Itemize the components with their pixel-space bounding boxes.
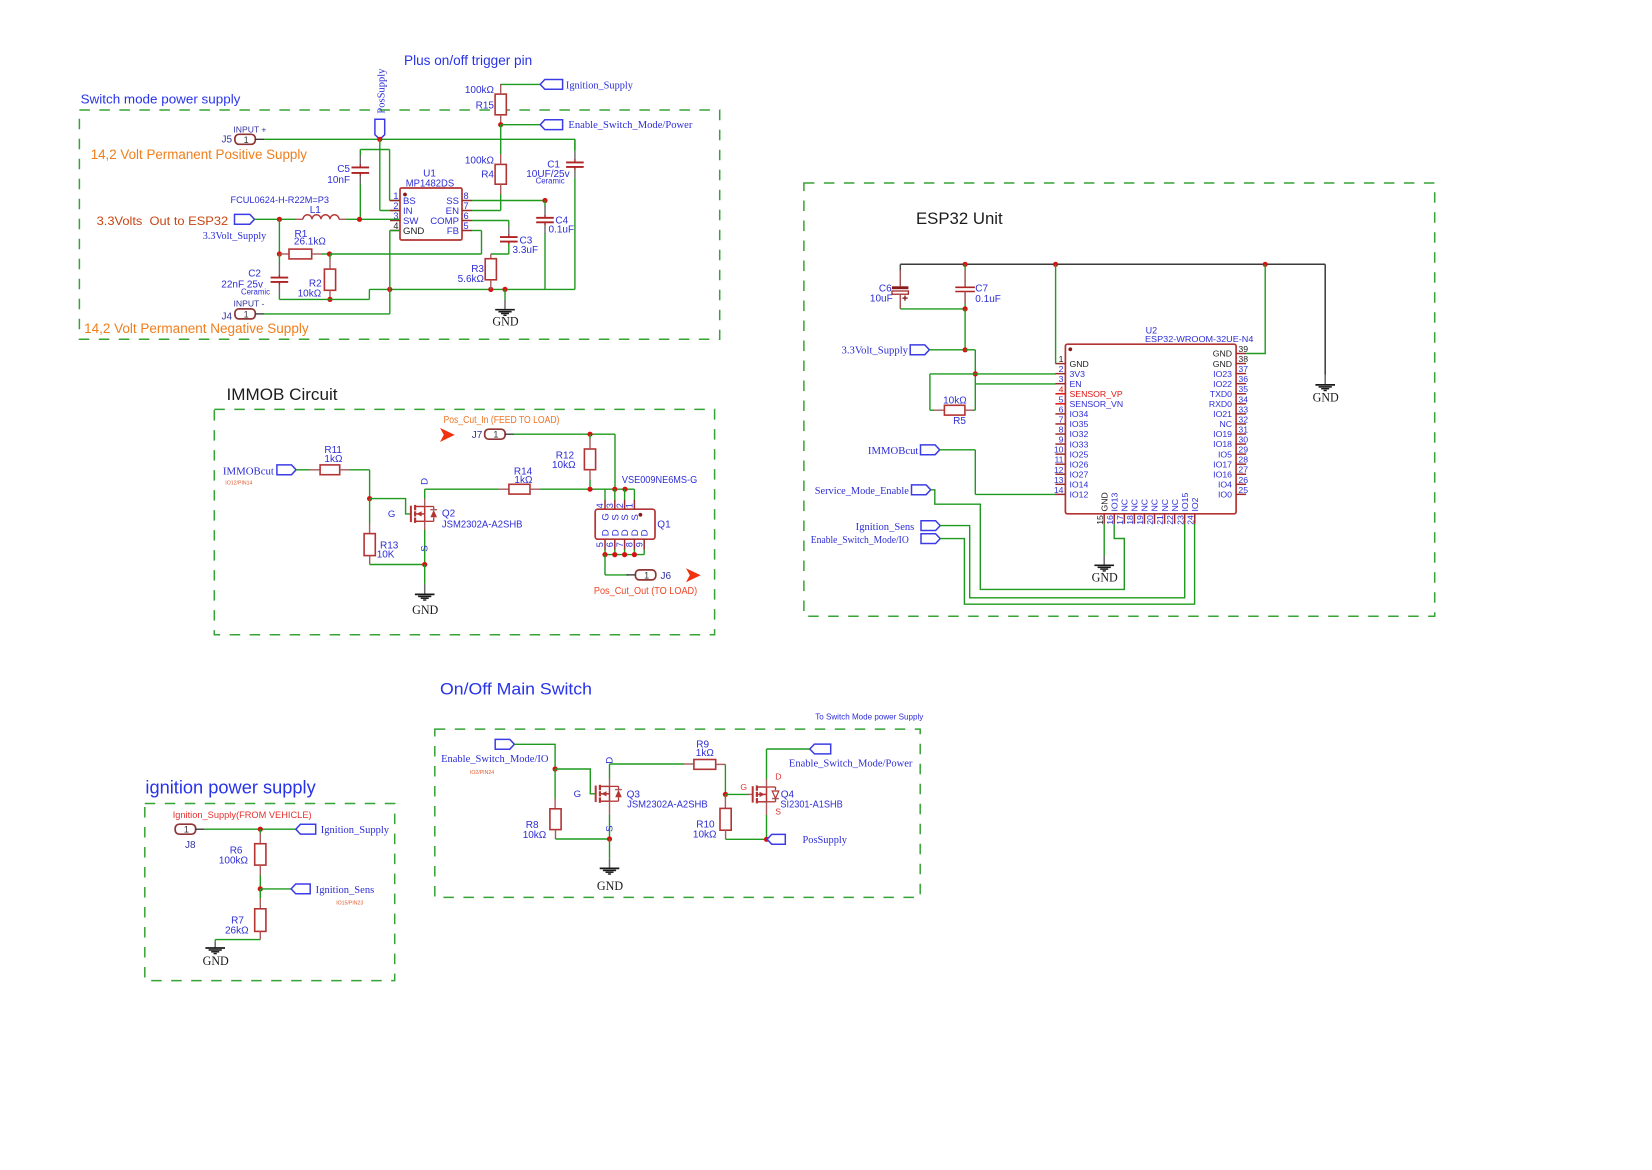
svg-text:35: 35 <box>1238 384 1248 394</box>
svg-text:3: 3 <box>1059 374 1064 384</box>
svg-text:NC: NC <box>1120 499 1130 512</box>
svg-text:IO12/PIN14: IO12/PIN14 <box>225 481 252 487</box>
svg-text:12: 12 <box>1054 465 1064 475</box>
svg-text:37: 37 <box>1238 364 1248 374</box>
svg-text:GND: GND <box>1070 359 1089 369</box>
svg-text:Enable_Switch_Mode/Power: Enable_Switch_Mode/Power <box>789 759 913 770</box>
svg-text:100kΩ: 100kΩ <box>219 855 249 866</box>
svg-text:22: 22 <box>1165 515 1175 525</box>
svg-text:R4: R4 <box>481 170 494 181</box>
svg-text:INPUT +: INPUT + <box>233 125 266 135</box>
svg-text:20: 20 <box>1145 515 1155 525</box>
svg-text:7: 7 <box>1059 414 1064 424</box>
svg-text:PosSupply: PosSupply <box>376 68 387 114</box>
svg-text:4: 4 <box>595 503 605 508</box>
svg-text:17: 17 <box>1115 515 1125 525</box>
svg-text:18: 18 <box>1125 515 1135 525</box>
svg-text:5.6kΩ: 5.6kΩ <box>458 274 485 285</box>
svg-text:9: 9 <box>634 542 644 547</box>
svg-text:GND: GND <box>1213 359 1232 369</box>
svg-text:GND: GND <box>597 879 623 893</box>
svg-text:IMMOBcut: IMMOBcut <box>223 467 274 478</box>
svg-text:GND: GND <box>1213 349 1232 359</box>
svg-text:IO0: IO0 <box>1218 490 1232 500</box>
svg-text:1: 1 <box>393 191 398 201</box>
svg-text:JSM2302A-A2SHB: JSM2302A-A2SHB <box>442 519 523 530</box>
svg-text:IO25: IO25 <box>1070 449 1089 459</box>
svg-text:IO23: IO23 <box>1213 369 1232 379</box>
svg-text:IO16: IO16 <box>1213 469 1232 479</box>
svg-text:34: 34 <box>1238 394 1248 404</box>
svg-text:26: 26 <box>1238 475 1248 485</box>
svg-text:33: 33 <box>1238 404 1248 414</box>
svg-text:13: 13 <box>1054 475 1064 485</box>
svg-text:GND: GND <box>492 314 518 328</box>
svg-text:NC: NC <box>1219 419 1232 429</box>
svg-text:21: 21 <box>1155 515 1165 525</box>
svg-text:IO17: IO17 <box>1213 459 1232 469</box>
svg-text:26.1kΩ: 26.1kΩ <box>294 236 326 247</box>
svg-text:GND: GND <box>1092 570 1118 584</box>
svg-text:GND: GND <box>1099 492 1109 511</box>
svg-text:IO22: IO22 <box>1213 379 1232 389</box>
svg-text:IO5: IO5 <box>1218 449 1232 459</box>
svg-text:MP1482DS: MP1482DS <box>406 178 455 189</box>
svg-text:IO15/PIN23: IO15/PIN23 <box>336 900 363 906</box>
svg-text:100kΩ: 100kΩ <box>465 85 495 96</box>
svg-text:10K: 10K <box>377 549 395 560</box>
svg-text:1: 1 <box>493 430 498 440</box>
svg-text:Ceramic: Ceramic <box>241 287 270 296</box>
svg-text:1: 1 <box>184 825 189 835</box>
svg-text:ignition power supply: ignition power supply <box>145 777 316 798</box>
svg-text:Plus on/off trigger pin: Plus on/off trigger pin <box>404 53 532 68</box>
svg-text:IO21: IO21 <box>1213 409 1232 419</box>
svg-text:29: 29 <box>1238 445 1248 455</box>
svg-text:10kΩ: 10kΩ <box>298 288 322 299</box>
svg-text:10nF: 10nF <box>327 175 350 186</box>
svg-text:3.3Volt_Supply: 3.3Volt_Supply <box>842 346 909 357</box>
svg-text:NC: NC <box>1140 499 1150 512</box>
svg-text:38: 38 <box>1238 354 1248 364</box>
svg-text:5: 5 <box>464 221 469 231</box>
svg-text:NC: NC <box>1150 499 1160 512</box>
svg-text:GND: GND <box>1313 391 1339 405</box>
svg-text:Ceramic: Ceramic <box>536 177 565 186</box>
svg-text:Enable_Switch_Mode/IO: Enable_Switch_Mode/IO <box>811 535 910 546</box>
svg-text:IO19: IO19 <box>1213 429 1232 439</box>
svg-text:SENSOR_VP: SENSOR_VP <box>1070 389 1123 399</box>
svg-text:S: S <box>604 825 615 831</box>
svg-text:32: 32 <box>1238 414 1248 424</box>
svg-text:100kΩ: 100kΩ <box>465 156 495 167</box>
svg-text:Q1: Q1 <box>657 520 671 531</box>
svg-text:14: 14 <box>1054 485 1064 495</box>
svg-text:J8: J8 <box>185 840 196 851</box>
svg-text:7: 7 <box>464 201 469 211</box>
svg-text:IO35: IO35 <box>1070 419 1089 429</box>
svg-text:3.3uF: 3.3uF <box>513 245 539 256</box>
svg-text:3V3: 3V3 <box>1070 369 1086 379</box>
svg-text:NC: NC <box>1160 499 1170 512</box>
svg-text:Service_Mode_Enable: Service_Mode_Enable <box>815 486 909 497</box>
svg-text:Ignition_Supply: Ignition_Supply <box>321 825 390 836</box>
svg-text:14,2 Volt Permanent Negative S: 14,2 Volt Permanent Negative Supply <box>84 321 309 336</box>
svg-text:D: D <box>775 772 781 782</box>
svg-text:14,2 Volt Permanent Positive S: 14,2 Volt Permanent Positive Supply <box>91 147 308 162</box>
svg-text:GND: GND <box>403 226 424 237</box>
svg-text:INPUT -: INPUT - <box>234 299 265 309</box>
svg-text:23: 23 <box>1175 515 1185 525</box>
svg-text:1kΩ: 1kΩ <box>696 748 715 759</box>
svg-text:NC: NC <box>1170 499 1180 512</box>
svg-text:10kΩ: 10kΩ <box>693 830 717 841</box>
svg-text:8: 8 <box>1059 425 1064 435</box>
svg-text:16: 16 <box>1105 515 1115 525</box>
svg-text:J6: J6 <box>661 571 672 582</box>
svg-text:Enable_Switch_Mode/IO: Enable_Switch_Mode/IO <box>441 754 549 765</box>
svg-text:8: 8 <box>464 191 469 201</box>
svg-text:31: 31 <box>1238 424 1248 434</box>
svg-text:G: G <box>740 782 747 792</box>
svg-text:8: 8 <box>625 542 635 547</box>
svg-text:6: 6 <box>1059 404 1064 414</box>
svg-text:NC: NC <box>1130 499 1140 512</box>
svg-text:D: D <box>604 757 615 764</box>
svg-text:2: 2 <box>1059 364 1064 374</box>
svg-text:IO26: IO26 <box>1070 459 1089 469</box>
svg-text:C2: C2 <box>248 268 261 279</box>
svg-text:J7: J7 <box>472 430 483 441</box>
svg-text:Enable_Switch_Mode/Power: Enable_Switch_Mode/Power <box>568 120 693 131</box>
svg-text:G: G <box>388 509 395 520</box>
svg-text:24: 24 <box>1185 515 1195 525</box>
svg-text:IMMOBcut: IMMOBcut <box>868 446 919 457</box>
svg-text:D: D <box>640 529 651 536</box>
svg-text:ESP32 Unit: ESP32 Unit <box>916 209 1003 228</box>
svg-text:Pos_Cut_In (FEED TO LOAD): Pos_Cut_In (FEED TO LOAD) <box>444 415 560 426</box>
svg-text:1: 1 <box>644 570 649 580</box>
svg-text:6: 6 <box>464 211 469 221</box>
svg-text:On/Off Main Switch: On/Off Main Switch <box>440 680 592 699</box>
svg-text:27: 27 <box>1238 465 1248 475</box>
svg-text:IO13: IO13 <box>1109 492 1119 511</box>
svg-text:5: 5 <box>595 542 605 547</box>
svg-text:39: 39 <box>1238 344 1248 354</box>
svg-text:4: 4 <box>1059 384 1064 394</box>
svg-text:IO12: IO12 <box>1070 490 1089 500</box>
svg-text:10kΩ: 10kΩ <box>523 830 547 841</box>
svg-text:10uF: 10uF <box>870 294 893 305</box>
svg-text:Ignition_Supply(FROM VEHICLE): Ignition_Supply(FROM VEHICLE) <box>173 810 312 821</box>
svg-text:1: 1 <box>1059 354 1064 364</box>
svg-text:3: 3 <box>605 503 615 508</box>
svg-text:IO34: IO34 <box>1070 409 1089 419</box>
svg-text:TXD0: TXD0 <box>1210 389 1232 399</box>
svg-text:11: 11 <box>1054 455 1063 465</box>
svg-text:IMMOB Circuit: IMMOB Circuit <box>227 385 338 404</box>
svg-text:PosSupply: PosSupply <box>803 835 848 846</box>
svg-text:VSE009NE6MS-G: VSE009NE6MS-G <box>622 475 697 486</box>
svg-text:RXD0: RXD0 <box>1209 399 1232 409</box>
svg-text:IO33: IO33 <box>1070 439 1089 449</box>
svg-text:1: 1 <box>625 503 635 508</box>
svg-text:1: 1 <box>244 309 249 319</box>
svg-text:28: 28 <box>1238 455 1248 465</box>
svg-text:GND: GND <box>203 954 229 968</box>
svg-text:1kΩ: 1kΩ <box>514 475 533 486</box>
svg-text:36: 36 <box>1238 374 1248 384</box>
svg-text:1kΩ: 1kΩ <box>324 454 343 465</box>
svg-text:15: 15 <box>1095 515 1105 525</box>
svg-text:Q2: Q2 <box>442 509 456 520</box>
svg-text:Pos_Cut_Out (TO LOAD): Pos_Cut_Out (TO LOAD) <box>594 586 697 597</box>
svg-text:EN: EN <box>1070 379 1082 389</box>
svg-text:GND: GND <box>412 603 438 617</box>
svg-text:1: 1 <box>244 135 249 145</box>
svg-text:26kΩ: 26kΩ <box>225 926 249 937</box>
svg-text:IO32: IO32 <box>1070 429 1089 439</box>
svg-text:Switch mode power supply: Switch mode power supply <box>81 92 241 107</box>
svg-text:JSM2302A-A2SHB: JSM2302A-A2SHB <box>627 800 708 811</box>
svg-text:G: G <box>574 789 581 800</box>
svg-text:5: 5 <box>1059 394 1064 404</box>
svg-text:IO15: IO15 <box>1180 492 1190 511</box>
svg-text:10: 10 <box>1054 445 1064 455</box>
svg-text:IO18: IO18 <box>1213 439 1232 449</box>
svg-text:9: 9 <box>1059 435 1064 445</box>
svg-text:Ignition_Sens: Ignition_Sens <box>316 885 375 896</box>
svg-text:IO2/PIN24: IO2/PIN24 <box>470 770 494 776</box>
svg-text:ESP32-WROOM-32UE-N4: ESP32-WROOM-32UE-N4 <box>1145 334 1254 344</box>
svg-text:R15: R15 <box>476 101 495 112</box>
svg-text:R5: R5 <box>953 416 966 427</box>
svg-text:C5: C5 <box>337 164 350 175</box>
svg-text:30: 30 <box>1238 435 1248 445</box>
svg-text:IO27: IO27 <box>1070 469 1089 479</box>
svg-text:IO2: IO2 <box>1190 497 1200 511</box>
svg-text:3.3Volt_Supply: 3.3Volt_Supply <box>203 231 267 242</box>
svg-text:S: S <box>630 514 641 520</box>
svg-text:SI2301-A1SHB: SI2301-A1SHB <box>780 800 843 811</box>
svg-text:10kΩ: 10kΩ <box>552 460 576 471</box>
svg-text:IO4: IO4 <box>1218 479 1232 489</box>
svg-text:4: 4 <box>393 221 398 231</box>
svg-text:Ignition_Sens: Ignition_Sens <box>856 522 915 533</box>
svg-text:6: 6 <box>605 542 615 547</box>
svg-text:SENSOR_VN: SENSOR_VN <box>1070 399 1124 409</box>
svg-text:25: 25 <box>1238 485 1248 495</box>
svg-text:FCUL0624-H-R22M=P3: FCUL0624-H-R22M=P3 <box>231 195 330 205</box>
svg-text:3.3Volts Out to ESP32: 3.3Volts Out to ESP32 <box>97 214 229 228</box>
svg-text:2: 2 <box>615 503 625 508</box>
svg-text:S: S <box>420 545 431 551</box>
svg-text:FB: FB <box>447 226 459 237</box>
svg-text:0.1uF: 0.1uF <box>549 224 575 235</box>
svg-text:D: D <box>420 478 431 485</box>
svg-text:10kΩ: 10kΩ <box>943 395 967 406</box>
svg-text:0.1uF: 0.1uF <box>975 294 1001 305</box>
svg-text:J4: J4 <box>221 312 232 323</box>
svg-text:IO14: IO14 <box>1070 480 1089 490</box>
svg-text:J5: J5 <box>221 135 232 146</box>
svg-text:2: 2 <box>393 201 398 211</box>
svg-text:7: 7 <box>615 542 625 547</box>
svg-text:To Switch Mode power Supply: To Switch Mode power Supply <box>815 712 924 721</box>
svg-text:19: 19 <box>1135 515 1145 525</box>
svg-text:Ignition_Supply: Ignition_Supply <box>566 80 634 91</box>
